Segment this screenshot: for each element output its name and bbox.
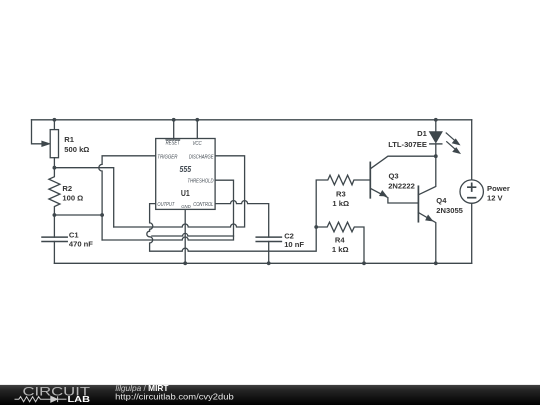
transistor Q4	[417, 186, 419, 221]
node C2 on ground rail	[267, 261, 271, 265]
node RESET on +12V rail	[172, 118, 176, 122]
node VCC on +12V rail	[195, 118, 199, 122]
wire R1 top stub	[53, 120, 55, 130]
LED light arrows	[446, 133, 454, 140]
pin label GND	[181, 204, 191, 209]
wire trigger	[99, 156, 156, 240]
svg-text:500 kΩ: 500 kΩ	[64, 145, 89, 154]
node D1 cathode / Q3 collector	[434, 154, 438, 158]
wire R1 bottom stub	[53, 158, 55, 168]
node R4 on ground rail	[362, 261, 366, 265]
svg-text:TRIGGER: TRIGGER	[157, 155, 177, 161]
svg-text:CONTROL: CONTROL	[193, 202, 213, 208]
svg-text:C1: C1	[69, 231, 79, 240]
svg-text:2N2222: 2N2222	[388, 182, 415, 191]
wire H1.5 threshold branch	[152, 233, 234, 236]
svg-text:U1: U1	[181, 188, 190, 198]
resistor R4	[316, 222, 364, 263]
svg-text:R3: R3	[336, 189, 346, 198]
resistor R3	[316, 175, 370, 227]
svg-text:R2: R2	[62, 184, 72, 193]
svg-text:1 kΩ: 1 kΩ	[332, 245, 349, 254]
resistor R2	[49, 168, 60, 215]
wire H1 discharge loop	[114, 156, 245, 227]
wire top rail to power	[471, 120, 473, 180]
wire vcc stub	[196, 120, 198, 139]
svg-text:LAB: LAB	[68, 394, 91, 404]
op-amp U1 555 timer box	[156, 139, 215, 210]
svg-text:1 kΩ: 1 kΩ	[332, 199, 349, 208]
svg-text:OUTPUT: OUTPUT	[157, 202, 175, 208]
svg-text:LTL-307EE: LTL-307EE	[388, 140, 427, 149]
capacitor C1	[53, 215, 55, 237]
wire power bottom to ground rail	[471, 203, 473, 263]
wire GND pin	[184, 209, 186, 263]
wire threshold wrap	[102, 180, 233, 240]
node R1/R2 junction	[53, 166, 57, 170]
svg-text:Power: Power	[487, 184, 510, 193]
node R2/C1 junction	[53, 213, 57, 217]
wire top rail +12V	[32, 119, 472, 121]
svg-text:12 V: 12 V	[487, 194, 504, 203]
svg-text:Q4: Q4	[436, 196, 447, 205]
svg-text:D1: D1	[417, 129, 427, 138]
wire R2 bottom to trigger column	[54, 214, 102, 216]
node GND on ground rail	[183, 261, 187, 265]
svg-text:470 nF: 470 nF	[69, 239, 93, 248]
logo resistor-diode squiggle	[15, 396, 67, 402]
svg-text:100 Ω: 100 Ω	[62, 194, 83, 203]
svg-text:DISCHARGE: DISCHARGE	[189, 155, 214, 161]
svg-text:http://circuitlab.com/cvy2dub: http://circuitlab.com/cvy2dub	[115, 392, 234, 402]
svg-text:RESET: RESET	[166, 141, 181, 147]
svg-text:Q3: Q3	[389, 172, 399, 181]
wire C1 bottom to ground rail	[53, 242, 55, 264]
svg-text:R4: R4	[335, 236, 345, 245]
capacitor C2	[256, 237, 281, 241]
svg-text:VCC: VCC	[193, 141, 202, 147]
svg-text:GND: GND	[181, 204, 191, 209]
svg-text:R1: R1	[64, 135, 74, 144]
node R1 top on +12V rail	[53, 118, 57, 122]
svg-text:THRESHOLD: THRESHOLD	[188, 178, 214, 184]
node Q4 emitter on ground rail	[434, 261, 438, 265]
wire C2 bottom to ground rail	[268, 242, 270, 264]
svg-text:555: 555	[180, 165, 192, 174]
wire pot wiper feedback	[32, 120, 43, 144]
wire bottom ground rail	[54, 262, 471, 264]
node D1 anode on +12V rail	[434, 118, 438, 122]
wire control to C2	[215, 201, 269, 238]
svg-text:2N3055: 2N3055	[436, 206, 463, 215]
diode D1 LED	[435, 120, 437, 132]
wire reset stub	[173, 120, 175, 139]
svg-text:10 nF: 10 nF	[284, 240, 304, 249]
transistor Q3	[369, 162, 371, 197]
wire B: R1 bottom node to discharge loop	[54, 168, 113, 227]
voltage source Power 12V	[460, 180, 483, 203]
node trigger/threshold junction	[100, 213, 104, 217]
potentiometer R1 wiper arrow	[42, 141, 50, 146]
resistor R1 body (potentiometer)	[50, 130, 58, 158]
wire output wrap	[147, 204, 316, 252]
node R3/R4 drive junction	[314, 225, 318, 229]
reset overline	[166, 139, 180, 141]
